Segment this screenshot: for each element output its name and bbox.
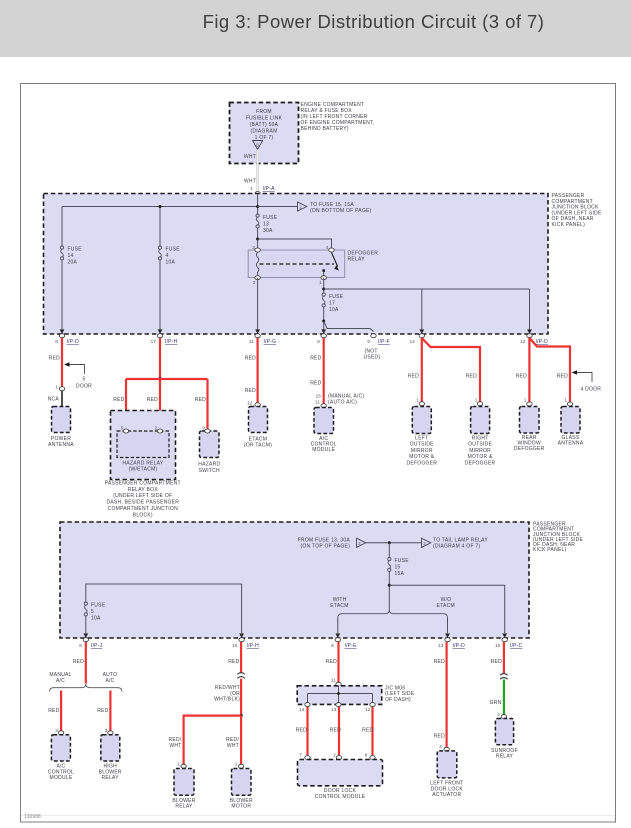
- svg-text:1: 1: [250, 186, 253, 191]
- wire RED door lock 13-2: [338, 707, 340, 755]
- wire RED rear defogger: [528, 338, 530, 402]
- a/c control module: [311, 408, 337, 453]
- svg-text:RED: RED: [516, 374, 527, 380]
- W/O ETACM label: [437, 597, 455, 609]
- wire between triangles: [366, 542, 422, 544]
- wire RED left mirror: [421, 338, 423, 402]
- svg-text:(UNDER LEFT SIDE OF: (UNDER LEFT SIDE OF: [113, 493, 172, 499]
- pin 8 I/P-D exit: [55, 329, 79, 345]
- a/c module pin 3: [55, 728, 64, 735]
- footer faint line: [21, 815, 615, 817]
- svg-text:4: 4: [439, 744, 442, 749]
- j/c pin 13: [331, 703, 341, 712]
- wire fuse5 bus: [86, 584, 242, 633]
- wire RED hazard feed: [159, 338, 161, 379]
- svg-text:1: 1: [177, 762, 180, 767]
- pin 10 I/P-C exit: [495, 633, 523, 649]
- svg-text:RED: RED: [491, 659, 502, 665]
- svg-text:RED: RED: [49, 356, 60, 362]
- node fuse4 top: [159, 205, 162, 208]
- wire bus top-left: [62, 206, 258, 208]
- wire red/wht to blower relay: [184, 716, 242, 766]
- svg-text:10A: 10A: [329, 307, 339, 313]
- svg-text:8: 8: [79, 643, 82, 648]
- wire RED auto a/c: [109, 691, 111, 731]
- relay pin 2: [253, 276, 261, 285]
- svg-text:14: 14: [299, 707, 305, 712]
- pin 9 I/P-F not used: [364, 334, 390, 361]
- svg-text:11: 11: [331, 678, 336, 683]
- svg-text:NCA: NCA: [48, 397, 60, 403]
- svg-text:MOTOR: MOTOR: [231, 804, 251, 810]
- svg-text:FUSE: FUSE: [329, 294, 344, 300]
- svg-text:RED: RED: [434, 659, 445, 665]
- svg-text:DASH, BESIDE PASSENGER: DASH, BESIDE PASSENGER: [106, 500, 179, 506]
- fuse F5: [84, 602, 106, 622]
- svg-text:FROM: FROM: [256, 109, 272, 115]
- pin 12 I/P-D exit: [520, 329, 548, 345]
- svg-text:OUTSIDE: OUTSIDE: [468, 442, 492, 448]
- svg-text:GRN: GRN: [490, 700, 502, 706]
- high blower relay: [99, 735, 122, 781]
- rear defogger pin 1: [524, 398, 532, 407]
- svg-text:RED: RED: [330, 728, 341, 734]
- node relay feed: [256, 238, 259, 241]
- wire RED/WHT blower: [240, 679, 242, 716]
- left mirror pin 1: [416, 398, 424, 406]
- fuse F17: [322, 293, 344, 314]
- right mirror pin 1: [475, 398, 483, 406]
- svg-text:I/P-J: I/P-J: [91, 643, 103, 649]
- lower junction block caption: [533, 522, 583, 554]
- wire RED I/P-E: [337, 642, 339, 682]
- relay pin 1: [319, 276, 326, 285]
- wire RED glass antenna branch: [530, 338, 571, 402]
- svg-text:I/P-C: I/P-C: [510, 643, 523, 649]
- svg-text:4: 4: [166, 253, 169, 259]
- j/c pin 11: [331, 678, 341, 687]
- wire stub with etacm: [337, 618, 339, 633]
- svg-text:1: 1: [416, 398, 419, 403]
- wire down to pin 12: [529, 289, 531, 331]
- svg-text:WHT: WHT: [244, 154, 256, 160]
- svg-text:17: 17: [151, 339, 157, 344]
- svg-text:14: 14: [68, 253, 74, 259]
- svg-text:CONTROL MODULE: CONTROL MODULE: [315, 794, 366, 800]
- etacm split brace: [338, 610, 448, 618]
- svg-text:20A: 20A: [68, 260, 78, 266]
- wire fuse4 branch: [159, 207, 161, 331]
- svg-text:1: 1: [524, 398, 527, 403]
- sunroof pin 2: [497, 712, 506, 719]
- node blower split: [240, 714, 243, 717]
- sunroof relay: [491, 719, 518, 760]
- svg-text:BLOCK): BLOCK): [133, 512, 153, 518]
- pin 6 I/P-E exit: [331, 633, 357, 649]
- relay coil: [256, 252, 258, 275]
- svg-text:11: 11: [249, 339, 254, 344]
- svg-text:WHT/BLK): WHT/BLK): [214, 697, 240, 703]
- svg-text:FUSE: FUSE: [395, 558, 410, 564]
- svg-text:DEFOGGER: DEFOGGER: [514, 446, 545, 452]
- svg-text:15: 15: [316, 394, 322, 399]
- wire down to pin 14: [421, 289, 423, 331]
- svg-text:8: 8: [55, 339, 58, 344]
- hazard relay pin 2: [155, 426, 163, 434]
- door lock control module: [298, 760, 383, 800]
- a/c control module (bottom): [48, 735, 74, 781]
- ETACM module: [244, 407, 272, 449]
- right outside mirror motor & defogger: [465, 407, 496, 467]
- svg-text:10: 10: [232, 643, 238, 648]
- blower relay: [172, 769, 195, 810]
- svg-text:4: 4: [326, 245, 329, 250]
- svg-text:30A: 30A: [263, 228, 273, 234]
- relay pin 3: [252, 245, 260, 252]
- svg-text:130988: 130988: [24, 814, 41, 820]
- svg-text:MOTOR &: MOTOR &: [468, 454, 493, 460]
- relay pin 4: [326, 245, 334, 252]
- svg-text:RED: RED: [408, 374, 419, 380]
- svg-text:MOTOR &: MOTOR &: [409, 454, 434, 460]
- svg-text:BEHIND BATTERY): BEHIND BATTERY): [301, 126, 349, 132]
- svg-text:ETACM: ETACM: [437, 603, 455, 609]
- 4 DOOR reference arrow: [572, 370, 602, 392]
- pin 10 I/P-H exit: [232, 633, 259, 649]
- svg-text:5: 5: [91, 609, 94, 615]
- wire RED etacm: [257, 338, 259, 403]
- wire RED I/P-J: [85, 642, 87, 684]
- node fuse15 feed: [388, 541, 391, 544]
- svg-text:I/P-H: I/P-H: [247, 643, 260, 649]
- svg-text:10A: 10A: [166, 260, 176, 266]
- engine box caption: [301, 102, 375, 132]
- actuator pin 4: [439, 744, 449, 751]
- svg-text:10: 10: [495, 643, 501, 648]
- svg-text:I/P-D: I/P-D: [536, 339, 549, 345]
- wire NCA: [61, 391, 63, 407]
- svg-text:WHT: WHT: [169, 743, 181, 749]
- wire RED I/P-H: [240, 642, 242, 673]
- blower motor pin 1: [235, 762, 244, 769]
- svg-text:15: 15: [395, 565, 401, 571]
- svg-text:RED: RED: [245, 356, 256, 362]
- svg-text:MIRROR: MIRROR: [411, 448, 433, 454]
- pin 11 I/P-G exit: [249, 329, 276, 345]
- passenger compartment relay box: [111, 411, 176, 480]
- svg-text:3: 3: [55, 728, 58, 733]
- pin 13 I/P-D exit: [438, 633, 465, 649]
- svg-text:MODULE: MODULE: [50, 775, 73, 781]
- wire to pin 9 not used: [324, 321, 374, 332]
- wire relay pin1 down: [323, 278, 325, 331]
- node fuse17 bottom branch: [322, 320, 325, 323]
- j/c inner bus: [308, 686, 373, 705]
- svg-text:WHT: WHT: [227, 743, 239, 749]
- svg-text:SWITCH: SWITCH: [199, 468, 220, 474]
- passenger compartment junction block (upper): [44, 194, 549, 335]
- svg-text:COMPARTMENT JUNCTION: COMPARTMENT JUNCTION: [108, 506, 178, 512]
- wire fuse14 branch: [61, 207, 63, 331]
- svg-text:I/P-F: I/P-F: [378, 339, 390, 345]
- blower relay pin 3: [105, 728, 113, 735]
- wire GRN sunroof: [503, 679, 505, 714]
- wire red to hazard switch: [206, 379, 208, 430]
- pin 17 I/P-H exit: [151, 329, 178, 345]
- glass antenna: [558, 407, 584, 447]
- wire RED right mirror branch: [422, 338, 480, 402]
- pin 8 exit (fuse 17): [317, 329, 326, 344]
- svg-text:DEFOGGER: DEFOGGER: [406, 461, 437, 467]
- svg-text:RED: RED: [147, 397, 158, 403]
- svg-text:RED: RED: [97, 708, 108, 714]
- svg-text:Fig 3: Power Distribution Circ: Fig 3: Power Distribution Circuit (3 of …: [203, 11, 545, 32]
- svg-text:2: 2: [497, 712, 500, 717]
- pin 1 I/P-A: [250, 186, 275, 192]
- page-link triangle to tail lamp relay: [422, 537, 489, 549]
- wire WHT from fusible link to junction block: [256, 150, 259, 192]
- svg-text:RED: RED: [195, 397, 206, 403]
- svg-text:RED: RED: [326, 659, 337, 665]
- svg-text:1: 1: [55, 385, 58, 390]
- wire right bus to pins 14 and 12: [324, 288, 530, 290]
- svg-text:9: 9: [365, 753, 368, 758]
- svg-text:A/C: A/C: [105, 678, 114, 684]
- svg-text:15A: 15A: [395, 571, 405, 577]
- svg-text:KICK PANEL): KICK PANEL): [552, 222, 586, 228]
- header band: [0, 0, 631, 57]
- svg-text:PASSENGER COMPARTMENT: PASSENGER COMPARTMENT: [105, 480, 181, 486]
- svg-text:2: 2: [333, 753, 336, 758]
- svg-text:RED: RED: [434, 734, 445, 740]
- svg-text:DOOR: DOOR: [76, 384, 92, 390]
- svg-text:HAZARD RELAY: HAZARD RELAY: [123, 460, 164, 466]
- svg-text:4 DOOR: 4 DOOR: [581, 387, 602, 393]
- wire stub w/o etacm: [447, 618, 449, 633]
- hazard switch pin 9: [202, 426, 210, 434]
- svg-text:RED: RED: [362, 728, 373, 734]
- power antenna: [48, 407, 74, 448]
- node ip-c branch: [388, 584, 391, 587]
- svg-text:2: 2: [253, 280, 256, 285]
- svg-text:MODULE: MODULE: [312, 447, 335, 453]
- wire relay pin2 to I/P-G: [257, 278, 259, 331]
- svg-text:5: 5: [82, 377, 85, 383]
- svg-text:ACTUATOR: ACTUATOR: [432, 792, 461, 798]
- wire RED door lock 14-7: [306, 707, 308, 755]
- blower motor: [230, 769, 253, 810]
- relay box caption: [105, 480, 181, 518]
- engine compartment fuse box (FROM FUSIBLE LINK): [230, 103, 299, 164]
- svg-text:KICK PANEL): KICK PANEL): [533, 547, 567, 553]
- svg-text:FROM FUSE 13, 30A: FROM FUSE 13, 30A: [298, 537, 351, 543]
- svg-text:6: 6: [331, 643, 334, 648]
- svg-text:RED: RED: [113, 397, 124, 403]
- node fuse17 top branch: [322, 288, 325, 291]
- svg-text:(BATT) 50A: (BATT) 50A: [250, 122, 279, 128]
- svg-text:1: 1: [235, 762, 238, 767]
- wire RED I/P-D actuator: [446, 642, 448, 748]
- WITH ETACM label: [330, 597, 348, 609]
- svg-text:ETACM: ETACM: [330, 603, 348, 609]
- svg-text:I/P-D: I/P-D: [67, 339, 80, 345]
- svg-text:RIGHT: RIGHT: [472, 435, 489, 441]
- passenger compartment junction block (lower): [60, 522, 529, 638]
- fuse F13: [256, 214, 278, 235]
- svg-text:RELAY: RELAY: [348, 257, 366, 263]
- svg-text:A/C: A/C: [56, 678, 65, 684]
- wire RED I/P-C: [503, 642, 505, 674]
- wire to pin 10 I/P-H: [241, 584, 243, 633]
- svg-text:13: 13: [331, 707, 337, 712]
- left front door lock actuator: [430, 751, 463, 798]
- svg-text:12: 12: [520, 339, 526, 344]
- left outside mirror motor & defogger: [406, 407, 437, 467]
- hazard relay: [117, 431, 169, 473]
- connector pin 1 power antenna: [55, 385, 64, 391]
- a/c pin labels: [315, 394, 365, 406]
- svg-text:I/P-G: I/P-G: [264, 339, 277, 345]
- svg-text:FUSE: FUSE: [68, 247, 83, 253]
- svg-text:OUTSIDE: OUTSIDE: [410, 442, 434, 448]
- svg-text:(ON TOP OF PAGE): (ON TOP OF PAGE): [301, 544, 351, 550]
- hazard relay pin 5: [121, 426, 129, 434]
- page-link triangle from fuse 13: [357, 538, 366, 547]
- wire to pin 10 I/P-C: [389, 585, 504, 633]
- door lock pin 9: [365, 753, 375, 760]
- MANUAL A/C label: [49, 672, 71, 684]
- svg-text:(W/ETACM): (W/ETACM): [129, 467, 158, 473]
- svg-text:FUSE: FUSE: [166, 247, 181, 253]
- wire red to hazard relay pin 2: [159, 379, 161, 430]
- page-link triangle B: [253, 141, 263, 150]
- svg-text:FUSE: FUSE: [263, 215, 278, 221]
- pin 14 exit: [410, 329, 425, 344]
- node main/bus: [256, 205, 259, 208]
- svg-text:RED: RED: [245, 388, 256, 394]
- svg-text:1: 1: [475, 398, 478, 403]
- page-link triangle to fuse 15: [298, 202, 372, 214]
- wire main vertical I/P-A feed: [257, 194, 259, 251]
- svg-text:(DIAGRAM 4 OF 7): (DIAGRAM 4 OF 7): [433, 544, 480, 550]
- pin 8 I/P-J exit: [79, 633, 102, 649]
- upper junction block caption: [552, 193, 602, 228]
- j/c pin 14: [299, 703, 310, 712]
- door lock pin 7: [299, 753, 310, 760]
- svg-text:RED: RED: [296, 728, 307, 734]
- svg-text:(ON BOTTOM OF PAGE): (ON BOTTOM OF PAGE): [310, 208, 372, 214]
- svg-text:FUSIBLE LINK: FUSIBLE LINK: [246, 116, 283, 122]
- svg-text:I/P-H: I/P-H: [165, 339, 178, 345]
- rear window defogger: [514, 407, 545, 453]
- svg-text:ANTENNA: ANTENNA: [558, 441, 584, 447]
- svg-text:1: 1: [319, 280, 322, 285]
- svg-text:RELAY: RELAY: [102, 775, 120, 781]
- svg-text:12: 12: [247, 401, 253, 406]
- wire fuse15 vertical: [388, 543, 390, 610]
- svg-text:I/P-A: I/P-A: [263, 186, 276, 192]
- svg-text:MIRROR: MIRROR: [469, 448, 491, 454]
- svg-text:RED: RED: [466, 374, 477, 380]
- 5 DOOR reference arrow: [64, 362, 92, 389]
- inline connector blower: [237, 673, 245, 679]
- svg-text:RELAY: RELAY: [175, 804, 193, 810]
- connector a/c: [321, 404, 326, 408]
- fuse F4: [158, 246, 180, 266]
- glass antenna pin 1: [564, 398, 572, 407]
- door lock pin 2: [333, 753, 341, 760]
- wire RED door lock 12-9: [371, 707, 373, 755]
- svg-text:LEFT: LEFT: [415, 435, 428, 441]
- etacm pin 12: [247, 401, 260, 407]
- svg-text:17: 17: [329, 301, 335, 307]
- svg-text:1: 1: [564, 398, 567, 403]
- RED/WHT labels: [214, 685, 240, 703]
- a/c split brace: [50, 684, 123, 692]
- svg-text:(OR TACM): (OR TACM): [244, 442, 272, 448]
- svg-text:14: 14: [410, 339, 416, 344]
- svg-text:RED: RED: [310, 356, 321, 362]
- svg-text:I/P-E: I/P-E: [345, 643, 358, 649]
- wire red to hazard relay pin 5: [125, 379, 127, 430]
- svg-text:RED: RED: [73, 659, 84, 665]
- wire red hazard bus: [126, 378, 208, 380]
- svg-text:TO TAIL LAMP RELAY: TO TAIL LAMP RELAY: [433, 537, 488, 543]
- fuse F15: [388, 557, 410, 577]
- svg-text:RELAY: RELAY: [496, 754, 514, 760]
- AUTO A/C label: [103, 672, 118, 684]
- svg-text:RED: RED: [228, 659, 239, 665]
- blower relay pin 1: [177, 762, 186, 769]
- svg-text:HAZARD: HAZARD: [198, 462, 220, 468]
- svg-text:FUSE: FUSE: [91, 603, 106, 609]
- wire RED manual a/c: [60, 691, 62, 731]
- svg-text:(DIAGRAM: (DIAGRAM: [251, 129, 278, 135]
- inline connector sunroof: [500, 674, 508, 680]
- fuse F14: [60, 246, 82, 266]
- svg-text:ANTENNA: ANTENNA: [48, 442, 74, 448]
- hazard switch: [198, 431, 220, 474]
- svg-text:DEFOGGER: DEFOGGER: [465, 461, 496, 467]
- svg-text:8: 8: [317, 339, 320, 344]
- svg-text:(AUTO A/C): (AUTO A/C): [328, 399, 357, 405]
- svg-text:RED: RED: [557, 374, 568, 380]
- svg-text:WHT: WHT: [244, 179, 256, 185]
- j/c pin 12: [365, 703, 375, 712]
- svg-text:11: 11: [315, 399, 320, 404]
- junction connector J/C M06: [297, 685, 415, 704]
- defogger relay U1: [248, 250, 378, 278]
- svg-text:I/P-D: I/P-D: [453, 643, 466, 649]
- svg-text:RED: RED: [310, 380, 321, 386]
- svg-text:13: 13: [263, 222, 269, 228]
- wire RED power antenna: [61, 338, 63, 386]
- svg-text:9: 9: [367, 339, 370, 344]
- svg-text:RELAY BOX: RELAY BOX: [128, 487, 159, 493]
- svg-text:OF DASH): OF DASH): [385, 697, 411, 703]
- node hazard split: [158, 377, 161, 380]
- svg-text:B: B: [256, 142, 259, 147]
- svg-text:10A: 10A: [91, 616, 101, 622]
- svg-text:12: 12: [365, 707, 371, 712]
- svg-text:7: 7: [299, 753, 302, 758]
- wire to relay pin 4: [258, 239, 332, 250]
- svg-text:USED): USED): [364, 355, 381, 361]
- svg-text:13: 13: [438, 643, 444, 648]
- connector I/P-A: [255, 192, 260, 196]
- from fuse 13 label: [298, 537, 351, 549]
- relay switch arm: [322, 253, 339, 278]
